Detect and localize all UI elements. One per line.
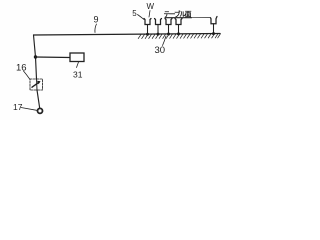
workpiece clamp 1 (U symbol) (144, 19, 151, 35)
svg-text:5: 5 (132, 9, 137, 18)
label 17 (13, 102, 23, 112)
label 30 (155, 45, 166, 56)
wire (branch to box 31) (36, 56, 71, 59)
label 9 (94, 15, 99, 25)
wire (below valve 16 to nozzle 17) (37, 90, 40, 108)
table surface underline leader (165, 17, 192, 19)
leader for label 31 (77, 62, 79, 68)
workpiece clamp 3 (U symbol) (165, 19, 172, 34)
svg-text:17: 17 (13, 102, 23, 112)
label W (147, 2, 155, 11)
nozzle 17 (small circle) (38, 108, 43, 113)
table surface hatching (138, 34, 220, 39)
label 31 (73, 70, 83, 80)
wire (left vertical drop line) (34, 35, 37, 79)
leader for label 5 (138, 15, 145, 20)
leader for label 9 (95, 24, 97, 33)
svg-text:W: W (147, 2, 155, 11)
svg-text:9: 9 (94, 15, 99, 25)
svg-text:16: 16 (16, 63, 27, 74)
svg-text:31: 31 (73, 70, 83, 80)
svg-text:30: 30 (155, 45, 166, 56)
svg-text:テーブル面: テーブル面 (164, 9, 192, 18)
wire 9 (main horizontal pipe line) (34, 34, 221, 36)
label table surface text (164, 9, 192, 18)
valve 16 (dashed box) (30, 79, 43, 90)
workpiece clamp 4 (U symbol) (175, 19, 182, 34)
label 16 (16, 63, 27, 74)
leader for label 17 (21, 108, 37, 111)
valve 16 arrow symbol (36, 78, 39, 90)
label 5 (132, 9, 137, 18)
node junction at branch to 31 (34, 55, 37, 58)
workpiece clamp 2 (U symbol) (155, 19, 162, 35)
leader for label 16 (24, 71, 31, 80)
workpiece clamp 5 (right U symbol) (211, 17, 218, 34)
leader for label 30 (163, 36, 167, 46)
leader for label W (149, 11, 150, 18)
box 31 (pressure source box) (70, 53, 84, 62)
